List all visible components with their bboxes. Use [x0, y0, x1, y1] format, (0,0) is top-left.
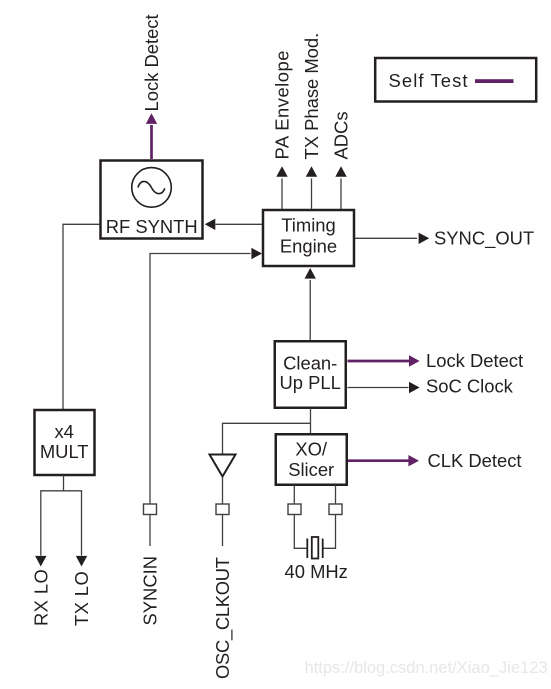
svg-text:Engine: Engine — [280, 235, 337, 256]
svg-text:Lock Detect: Lock Detect — [426, 350, 523, 371]
wire RX LO arrow — [35, 490, 46, 566]
wire OSC_CLKOUT below pad — [222, 515, 224, 546]
svg-text:Self Test: Self Test — [389, 70, 469, 91]
wire XO left leg — [293, 485, 295, 504]
svg-text:Slicer: Slicer — [288, 459, 334, 480]
svg-text:Clean-: Clean- — [283, 352, 337, 373]
legend purple line — [475, 79, 514, 83]
wire branch to buffer — [223, 423, 311, 454]
wire Clean-Up PLL to XO/Slicer — [310, 408, 312, 434]
svg-text:https://blog.csdn.net/Xiao_Jie: https://blog.csdn.net/Xiao_Jie123 — [305, 659, 548, 677]
box Timing Engine — [263, 210, 354, 266]
svg-text:SYNCIN: SYNCIN — [140, 556, 161, 626]
wire XO right leg lower — [323, 515, 336, 549]
box XO/Slicer — [276, 434, 347, 485]
wire TX LO arrow — [76, 490, 87, 566]
box x4 MULT — [35, 410, 95, 475]
wire x4 MULT bottom split — [41, 475, 82, 491]
box RF SYNTH — [101, 161, 203, 239]
purple self-test arrow Lock Detect (top) — [146, 113, 157, 159]
svg-text:RX LO: RX LO — [31, 569, 52, 626]
wire Clean-Up PLL to Timing Engine arrow up — [305, 268, 316, 340]
purple wire Lock Detect with arrowhead — [348, 355, 420, 366]
wire TX Phase Mod arrow — [306, 166, 317, 209]
wire SoC Clock with arrowhead — [348, 382, 420, 393]
purple wire CLK Detect with arrowhead — [348, 455, 419, 466]
legend box Self Test — [375, 58, 536, 102]
svg-text:CLK Detect: CLK Detect — [428, 450, 522, 471]
wire XO left leg lower — [294, 515, 307, 549]
box Clean-Up PLL — [275, 341, 346, 408]
svg-text:x4: x4 — [54, 421, 73, 442]
sine wave — [138, 181, 165, 193]
svg-text:Up PLL: Up PLL — [280, 372, 341, 393]
wire SYNCIN below pad — [149, 515, 151, 546]
pad OSC_CLKOUT — [216, 504, 229, 515]
wire ADCs arrow — [335, 166, 346, 209]
svg-text:SoC Clock: SoC Clock — [426, 376, 514, 397]
svg-text:Lock Detect: Lock Detect — [141, 14, 162, 111]
wire Timing Engine to RF SYNTH with arrowhead — [205, 219, 263, 230]
buffer triangle — [210, 455, 236, 477]
svg-text:PA Envelope: PA Envelope — [272, 50, 293, 159]
wire buffer to pad — [222, 477, 224, 505]
svg-text:40 MHz: 40 MHz — [285, 561, 348, 582]
svg-text:TX Phase Mod.: TX Phase Mod. — [301, 33, 322, 160]
crystal X1 right electrode — [322, 539, 324, 559]
svg-text:Timing: Timing — [281, 215, 336, 236]
crystal X1 body — [312, 537, 319, 559]
svg-text:SYNC_OUT: SYNC_OUT — [434, 228, 534, 250]
pad SYNCIN — [144, 504, 157, 515]
wire SYNCIN to Timing Engine with arrowhead — [150, 248, 262, 504]
oscillator circle icon — [132, 168, 172, 208]
svg-text:MULT: MULT — [40, 441, 89, 462]
wire PA Envelope arrow — [276, 166, 287, 209]
svg-text:XO/: XO/ — [295, 438, 328, 459]
pad XO right — [329, 504, 342, 515]
svg-text:ADCs: ADCs — [331, 111, 352, 159]
wire RF SYNTH left to x4 MULT top — [63, 224, 100, 410]
svg-text:TX LO: TX LO — [71, 571, 92, 626]
wire XO right leg — [335, 485, 337, 504]
wire SYNC_OUT with arrowhead — [355, 233, 429, 244]
crystal X1 left electrode — [306, 539, 308, 559]
svg-text:RF SYNTH: RF SYNTH — [106, 216, 198, 237]
svg-text:OSC_CLKOUT: OSC_CLKOUT — [212, 557, 234, 679]
pad XO left — [288, 504, 301, 515]
